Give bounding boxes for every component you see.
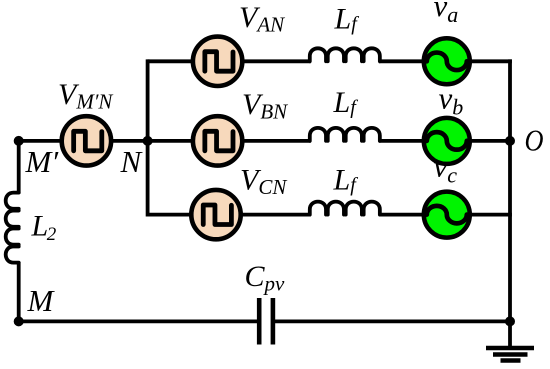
node M' junction dot [14,136,24,146]
wire: left bus L2 down to node M [17,262,21,321]
wire: Lf to v_c [379,213,426,217]
wire: v_b to node O [468,139,510,143]
ground symbol [486,348,534,361]
wire: bottom right segment Cpv to right bus [275,319,510,323]
inductor Lf (phase c) [310,202,380,215]
svg-text:va: va [434,0,459,27]
wire: v_c to right bus [468,213,512,217]
junction dot at bottom right [505,316,515,326]
node O junction dot [505,136,515,146]
wire: bottom left segment M to Cpv [19,319,258,323]
inductor Lf (phase b) [310,128,380,141]
wire: V_CN to Lf (phase c) [239,213,311,217]
inductor L2 [6,193,19,263]
wire: vertical bus at node N [146,59,150,216]
wire: V_AN to Lf (phase a) [240,59,310,63]
wire: V_BN to Lf (phase b) [240,139,310,143]
square-wave source V_M'N [62,116,111,165]
AC source v_b [424,118,470,164]
node N junction dot [143,136,153,146]
square-wave source V_BN [193,116,242,165]
wire: Lf to v_a [379,59,426,63]
wire: Lf to v_b [379,139,426,143]
wire: right bus vertical [508,59,512,347]
node M junction dot [14,316,24,326]
svg-text:O: O [525,123,544,158]
inductor Lf (phase a) [310,48,380,61]
wire: N bus to V_AN (phase a) [148,59,195,63]
AC source v_c [424,192,470,238]
wire: V_M'N to V_BN through node N [111,139,195,143]
wire: v_a to right bus [468,59,512,63]
wire: N bus to V_CN (phase c) [148,213,194,217]
svg-text:M: M [27,283,56,318]
square-wave source V_AN [193,37,242,86]
square-wave source V_CN [191,190,240,239]
AC source v_a [424,38,470,84]
wire: node M' to source V_M'N [19,139,65,143]
wire: left bus M' down to L2 [17,141,21,194]
svg-text:N: N [120,144,144,179]
capacitor Cpv [259,298,273,345]
svg-text:M′: M′ [25,144,60,179]
